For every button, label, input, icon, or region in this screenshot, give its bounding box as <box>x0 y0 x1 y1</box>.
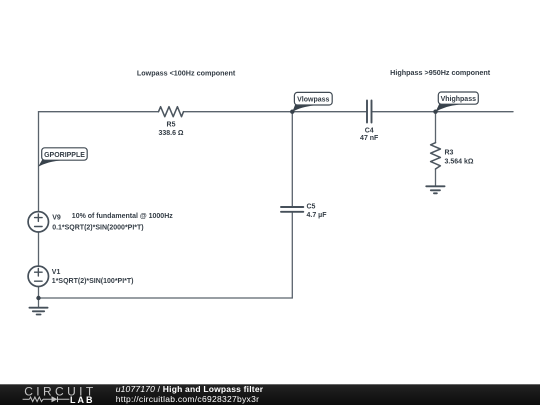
wire bottom rail <box>39 297 293 299</box>
wire top rail left segment <box>39 111 159 113</box>
svg-text:Vlowpass: Vlowpass <box>297 96 329 103</box>
svg-text:R3: R3 <box>445 150 454 157</box>
wire left rail upper <box>38 112 40 212</box>
svg-text:R5: R5 <box>167 122 176 129</box>
svg-text:Lowpass <100Hz component: Lowpass <100Hz component <box>137 68 236 77</box>
voltage source V1 <box>28 266 48 286</box>
capacitor C5 <box>281 207 303 212</box>
svg-text:C4: C4 <box>365 128 374 135</box>
node Vhighpass junction dot <box>433 110 437 114</box>
resistor R3 <box>431 143 441 169</box>
wire C5 bottom to bottom rail <box>291 212 293 298</box>
capacitor C4 <box>367 101 372 123</box>
svg-text:GPORIPPLE: GPORIPPLE <box>44 152 85 159</box>
svg-text:V1: V1 <box>52 269 61 276</box>
svg-text:4.7 µF: 4.7 µF <box>307 212 328 219</box>
ground under R3 <box>426 186 444 193</box>
wire between V9 and V1 <box>38 232 40 265</box>
svg-text:Vhighpass: Vhighpass <box>441 96 477 103</box>
svg-text:V9: V9 <box>52 214 61 221</box>
svg-text:C5: C5 <box>307 204 316 211</box>
wire V1 bottom to ground <box>38 287 40 308</box>
svg-text:3.564 kΩ: 3.564 kΩ <box>445 158 474 165</box>
wire R3 bottom to ground <box>435 169 437 186</box>
svg-text:u1077170 / High and Lowpass fi: u1077170 / High and Lowpass filter <box>116 384 264 394</box>
resistor R5 <box>159 107 184 117</box>
wire top rail right segment <box>372 111 514 113</box>
svg-text:LAB: LAB <box>70 395 95 405</box>
ground under V1 <box>29 308 47 315</box>
svg-text:Highpass >950Hz component: Highpass >950Hz component <box>390 68 491 77</box>
svg-text:http://circuitlab.com/c6928327: http://circuitlab.com/c6928327byx3r <box>116 394 260 404</box>
wire Vlowpass node down to C5 <box>291 112 293 207</box>
logo wire glyph with resistor and diode <box>23 397 70 403</box>
svg-text:10% of fundamental @ 1000Hz: 10% of fundamental @ 1000Hz <box>72 213 173 220</box>
flag pointer GPORIPPLE <box>38 160 63 167</box>
svg-text:0.1*SQRT(2)*SIN(2000*PI*T): 0.1*SQRT(2)*SIN(2000*PI*T) <box>52 225 143 232</box>
voltage source V9 <box>28 212 48 232</box>
flag pointer Vlowpass <box>292 104 315 112</box>
flag box GPORIPPLE <box>42 148 87 160</box>
wire top rail middle segment <box>184 111 368 113</box>
svg-text:1*SQRT(2)*SIN(100*PI*T): 1*SQRT(2)*SIN(100*PI*T) <box>52 278 134 285</box>
wire Vhighpass node down to R3 <box>435 112 437 143</box>
flag box Vlowpass <box>294 92 332 105</box>
flag pointer Vhighpass <box>436 104 460 112</box>
node ground junction dot <box>36 296 40 300</box>
svg-text:47 nF: 47 nF <box>360 135 379 142</box>
node Vlowpass junction dot <box>290 110 294 114</box>
flag box Vhighpass <box>438 92 478 104</box>
svg-text:338.6 Ω: 338.6 Ω <box>158 130 183 137</box>
